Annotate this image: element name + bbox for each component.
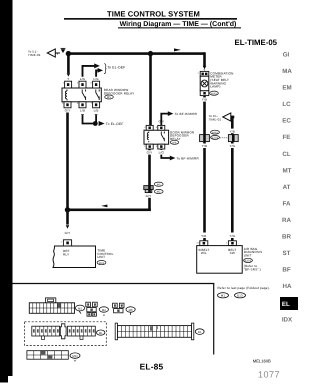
svg-text:L/G: L/G xyxy=(93,77,99,81)
svg-text:EC: EC xyxy=(282,118,291,125)
svg-text:Wiring Diagram — TIME — (Cont': Wiring Diagram — TIME — (Cont'd) xyxy=(120,20,237,28)
note box xyxy=(13,283,270,355)
svg-text:FE: FE xyxy=(283,134,291,141)
svg-text:M1: M1 xyxy=(99,332,103,335)
contact 2 xyxy=(96,90,99,101)
wire: arrow elbow down xyxy=(231,116,235,119)
grid 1 xyxy=(32,326,60,339)
long connector xyxy=(115,323,204,340)
junction marker arrow xyxy=(61,47,66,49)
terminal bottom-right xyxy=(158,144,165,149)
svg-text:Y: Y xyxy=(67,77,69,81)
coil xyxy=(147,132,149,143)
svg-text:M33: M33 xyxy=(72,355,78,358)
svg-text:M33: M33 xyxy=(212,131,218,134)
svg-text:Refer to last page (Foldout pa: Refer to last page (Foldout page). xyxy=(218,286,270,290)
pin numbers xyxy=(62,81,93,105)
svg-text:LAMP): LAMP) xyxy=(210,85,220,89)
current direction arrow (right) xyxy=(174,48,181,51)
svg-text:M5: M5 xyxy=(157,183,161,186)
relay socket 2 xyxy=(113,303,136,315)
corner down xyxy=(203,52,206,66)
contact 1 xyxy=(82,90,85,101)
svg-text:MEL160B: MEL160B xyxy=(253,358,271,363)
svg-text:M2: M2 xyxy=(157,191,161,194)
svg-text:1077: 1077 xyxy=(258,369,280,379)
svg-text:EL-85: EL-85 xyxy=(140,362,164,372)
lamp box xyxy=(200,76,209,91)
inline connector pair (right wire) xyxy=(228,134,238,142)
contact xyxy=(161,132,164,142)
unit box (torn left edge) xyxy=(53,246,96,268)
connector id ovals xyxy=(211,130,228,139)
terminal bottom-left xyxy=(146,144,153,149)
svg-text:G/Y: G/Y xyxy=(65,108,71,112)
svg-text:RLY: RLY xyxy=(63,253,69,257)
dotted leader xyxy=(220,137,228,139)
label To EL-TIME-01 (right) xyxy=(209,114,222,121)
svg-text:M5: M5 xyxy=(107,96,111,99)
big connector M1 xyxy=(29,298,84,314)
svg-text:L/G: L/G xyxy=(80,77,86,81)
wire: right to airbag unit xyxy=(231,142,234,144)
brace xyxy=(104,64,106,74)
off-page arrow (open, pointing left) xyxy=(47,49,55,57)
svg-text:B202: B202 xyxy=(212,137,219,140)
svg-text:B1: B1 xyxy=(198,331,202,334)
terminal bottom-left xyxy=(64,102,71,108)
footer xyxy=(140,358,280,379)
arrows below labels xyxy=(81,114,84,117)
id oval xyxy=(170,140,179,144)
svg-text:Y/G: Y/G xyxy=(229,144,235,148)
relay box xyxy=(144,130,169,144)
terminal bottom-right xyxy=(93,102,100,108)
small grid bottom xyxy=(27,351,80,363)
connector id oval xyxy=(105,95,114,99)
joint xyxy=(60,324,66,339)
wire: drop to rear window defogger relay xyxy=(67,54,70,74)
terminal bottom xyxy=(200,91,209,96)
svg-text:L/G: L/G xyxy=(159,151,165,155)
wire: G/Y main down to TCU junction xyxy=(66,113,69,210)
node: TCU junction xyxy=(65,207,70,212)
svg-text:M6: M6 xyxy=(129,308,133,312)
page gutter black bar xyxy=(0,0,13,383)
terminal top-right xyxy=(158,125,165,130)
branch: mid L/G up to EL-DEF xyxy=(83,66,95,77)
svg-text:M1: M1 xyxy=(221,294,226,298)
svg-text:M4: M4 xyxy=(102,308,106,312)
relay box xyxy=(62,88,101,102)
svg-text:M33: M33 xyxy=(211,92,217,95)
svg-text:To BF-H/MIRR: To BF-H/MIRR xyxy=(177,156,200,160)
svg-text:G/Y: G/Y xyxy=(146,194,152,198)
svg-text:UNIT: UNIT xyxy=(244,253,252,257)
svg-text:HA: HA xyxy=(283,283,292,290)
junction xyxy=(93,121,98,126)
svg-text:LC: LC xyxy=(282,101,291,108)
svg-text:FA: FA xyxy=(283,200,291,207)
off-page arrow (open, pointing left) xyxy=(223,113,231,121)
relay socket 1 xyxy=(86,302,109,317)
inline connector pair (meter wire) xyxy=(200,134,210,142)
wire: right L/B to junction xyxy=(95,116,97,124)
svg-text:ST: ST xyxy=(283,250,291,257)
svg-text:EL: EL xyxy=(282,301,290,308)
id oval xyxy=(210,91,219,95)
svg-text:To EL-DEF: To EL-DEF xyxy=(107,66,125,70)
svg-text:B: B xyxy=(103,314,105,317)
coil symbol xyxy=(65,90,67,101)
svg-text:To EL-DEF: To EL-DEF xyxy=(106,122,124,126)
pin numbers xyxy=(144,126,158,148)
svg-text:Y: Y xyxy=(56,52,58,56)
header title xyxy=(64,10,278,47)
svg-text:TIME CONTROL SYSTEM: TIME CONTROL SYSTEM xyxy=(107,10,200,19)
svg-text:IDX: IDX xyxy=(282,316,293,323)
svg-text:"BF-SRS".): "BF-SRS".) xyxy=(244,267,261,271)
terminals xyxy=(200,241,208,246)
svg-text:W/L: W/L xyxy=(201,251,207,255)
inline connector (G/Y) xyxy=(144,182,163,194)
svg-text:Y/B: Y/B xyxy=(202,144,207,148)
svg-text:BF: BF xyxy=(282,267,290,274)
wire: horizontal G/Y xyxy=(68,209,151,212)
svg-text:TIME-01: TIME-01 xyxy=(28,53,41,57)
wire color Y/B (in break) xyxy=(228,129,236,134)
current arrow (left) xyxy=(101,205,107,208)
terminal top xyxy=(200,71,209,76)
svg-text:SW: SW xyxy=(230,251,235,255)
svg-text:E13: E13 xyxy=(237,294,243,298)
name xyxy=(210,71,233,88)
svg-text:M32: M32 xyxy=(99,262,105,265)
wire: meter down to connector xyxy=(203,96,206,98)
svg-text:M6: M6 xyxy=(173,142,177,145)
lamp xyxy=(201,80,208,87)
svg-text:EL-TIME-05: EL-TIME-05 xyxy=(235,38,278,47)
svg-text:·: · xyxy=(231,294,232,298)
terminal bottom-mid xyxy=(79,102,86,108)
arrow into meter xyxy=(203,66,207,69)
svg-text:MA: MA xyxy=(282,68,292,75)
svg-text:TIME-01: TIME-01 xyxy=(209,117,222,121)
grid 2 xyxy=(68,326,96,339)
svg-text:RA: RA xyxy=(282,217,291,224)
wire: mid L/B to EL-DEF xyxy=(83,116,95,124)
svg-text:B202: B202 xyxy=(245,260,252,263)
wire down to TCU xyxy=(66,210,69,225)
svg-text:EM: EM xyxy=(282,85,291,92)
label To EL-TIME-01 (top-left) xyxy=(28,50,41,57)
name xyxy=(170,130,195,141)
dashed group box xyxy=(25,322,107,346)
svg-text:G/Y: G/Y xyxy=(147,151,153,155)
svg-text:GI: GI xyxy=(283,52,290,59)
terminal top-mid xyxy=(79,81,86,88)
terminal top-right xyxy=(93,81,100,88)
svg-text:Y/G: Y/G xyxy=(229,234,235,238)
svg-text:Y/B: Y/B xyxy=(201,234,206,238)
svg-text:To BF-H/MIRR: To BF-H/MIRR xyxy=(175,112,198,116)
terminal xyxy=(63,240,71,246)
terminal top-left xyxy=(65,81,72,88)
wire: meter to airbag unit xyxy=(203,142,206,144)
svg-text:BR: BR xyxy=(282,234,291,241)
node: main feed junction xyxy=(66,51,71,56)
svg-text:CL: CL xyxy=(282,151,290,158)
relay name xyxy=(104,88,135,95)
svg-text:L/B: L/B xyxy=(80,108,85,112)
svg-text:AT: AT xyxy=(283,184,291,191)
terminal top-left xyxy=(146,125,153,130)
svg-text:G/Y: G/Y xyxy=(65,231,71,235)
svg-text:Y/B: Y/B xyxy=(230,129,235,133)
junction at door mirror relay drop xyxy=(148,51,153,56)
side margin section tabs xyxy=(280,52,298,324)
unit box xyxy=(197,246,243,274)
arrow To EL-DEF (lower) xyxy=(99,121,105,126)
svg-text:Y/B: Y/B xyxy=(202,98,207,102)
arrow into relay xyxy=(67,73,71,76)
wire: main horizontal feed xyxy=(68,52,205,55)
svg-text:M1: M1 xyxy=(78,306,82,310)
svg-text:L/B: L/B xyxy=(94,108,99,112)
branch: right L/G up to EL-DEF xyxy=(96,70,98,76)
wire: drop from junction xyxy=(149,54,152,126)
svg-text:MT: MT xyxy=(283,167,292,174)
svg-text:UNIT: UNIT xyxy=(97,255,105,259)
